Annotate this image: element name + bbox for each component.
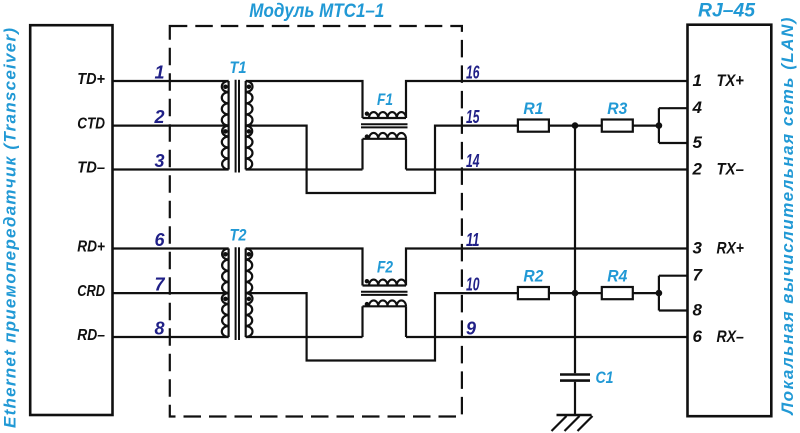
svg-text:F1: F1 <box>377 91 393 109</box>
svg-text:R2: R2 <box>523 268 543 286</box>
svg-text:Модуль МТС1–1: Модуль МТС1–1 <box>249 0 384 22</box>
svg-text:2: 2 <box>692 160 703 179</box>
svg-text:7: 7 <box>154 275 165 295</box>
svg-text:14: 14 <box>466 151 480 171</box>
svg-text:7: 7 <box>693 266 704 285</box>
svg-text:2: 2 <box>153 107 164 127</box>
svg-text:9: 9 <box>466 318 476 338</box>
svg-text:1: 1 <box>693 71 702 90</box>
svg-text:TX+: TX+ <box>717 71 744 90</box>
svg-text:RX+: RX+ <box>717 239 744 258</box>
svg-text:5: 5 <box>693 133 703 152</box>
svg-text:10: 10 <box>466 275 480 295</box>
svg-text:RD–: RD– <box>77 327 105 344</box>
svg-text:8: 8 <box>154 318 164 338</box>
svg-text:3: 3 <box>693 239 703 258</box>
svg-text:6: 6 <box>154 230 165 250</box>
svg-text:15: 15 <box>466 107 480 127</box>
svg-text:Ethernet приемопередатчик (Tra: Ethernet приемопередатчик (Transceiver) <box>1 28 20 428</box>
svg-text:R4: R4 <box>607 268 627 286</box>
svg-text:1: 1 <box>154 62 164 82</box>
svg-text:F2: F2 <box>377 259 393 277</box>
svg-text:TD–: TD– <box>77 160 105 177</box>
svg-text:CTD: CTD <box>77 116 105 133</box>
svg-text:4: 4 <box>692 98 703 117</box>
svg-text:TX–: TX– <box>717 160 745 179</box>
svg-text:3: 3 <box>154 151 164 171</box>
svg-text:T2: T2 <box>230 227 247 245</box>
svg-text:RD+: RD+ <box>77 239 105 256</box>
svg-text:TD+: TD+ <box>77 71 105 88</box>
svg-text:R1: R1 <box>523 100 543 118</box>
svg-text:8: 8 <box>693 301 703 320</box>
svg-text:6: 6 <box>693 327 703 346</box>
svg-text:16: 16 <box>466 62 480 82</box>
svg-text:C1: C1 <box>596 369 614 387</box>
svg-text:RX–: RX– <box>717 327 745 346</box>
svg-text:RJ–45: RJ–45 <box>698 0 756 21</box>
svg-text:T1: T1 <box>230 59 247 77</box>
svg-text:CRD: CRD <box>77 283 105 300</box>
svg-text:R3: R3 <box>607 100 627 118</box>
svg-text:11: 11 <box>466 230 480 250</box>
